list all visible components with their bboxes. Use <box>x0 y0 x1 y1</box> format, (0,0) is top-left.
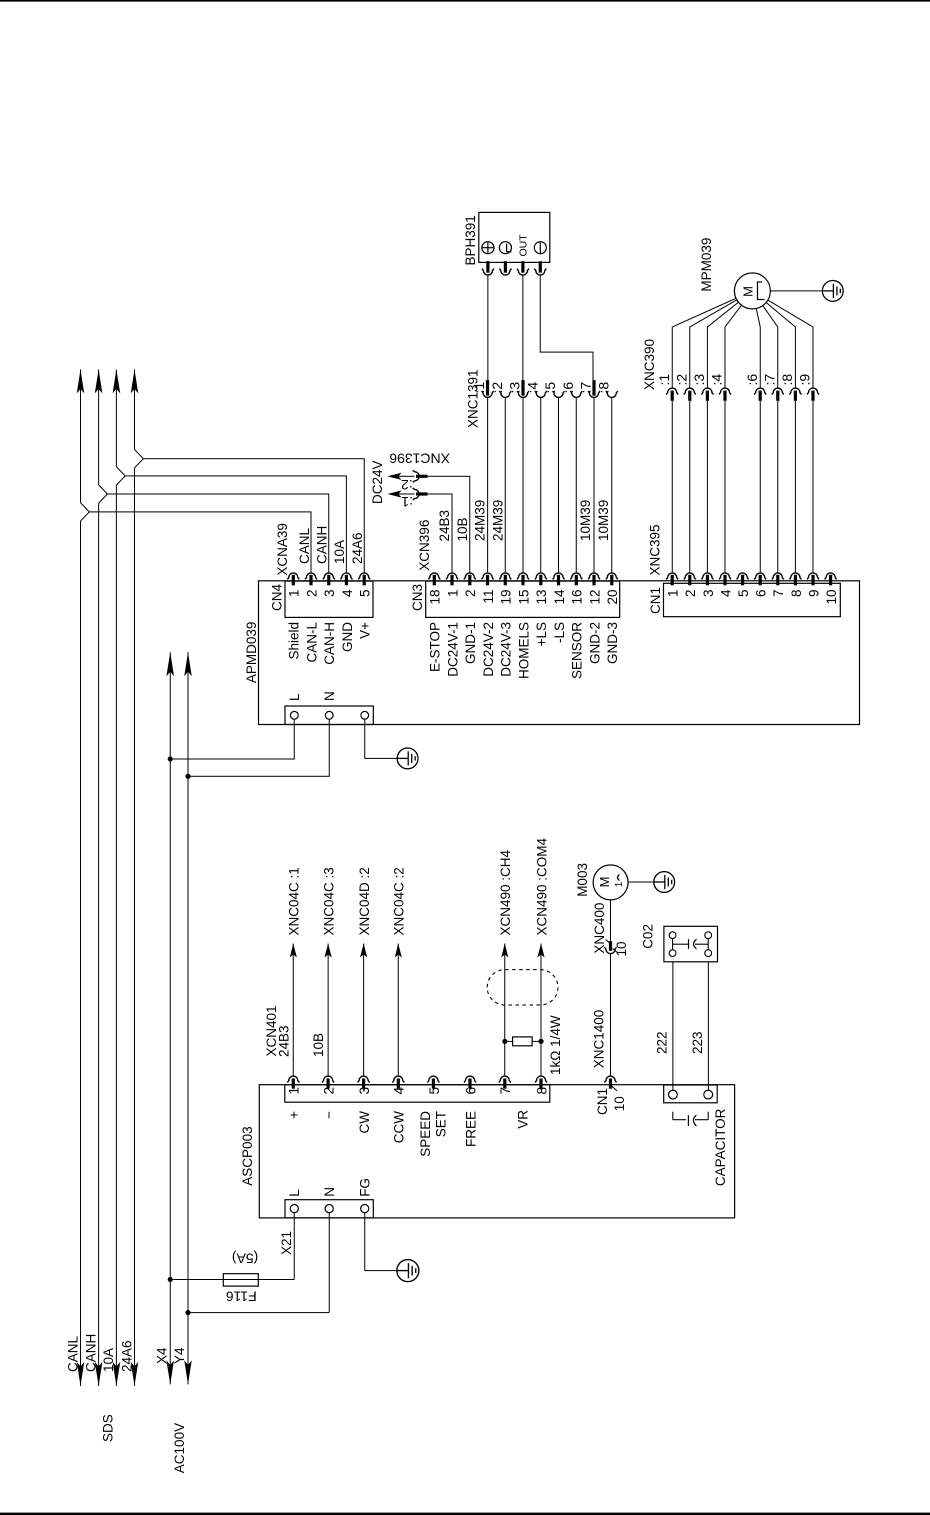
wire XNC390 :3 to CN1 <box>706 401 708 573</box>
svg-text:XNC1396: XNC1396 <box>389 451 450 467</box>
svg-text:24A6: 24A6 <box>119 1340 134 1372</box>
XNC1391 socket :6 <box>560 382 583 573</box>
svg-text:16: 16 <box>570 590 585 605</box>
wire BPH391 minus to XNC1391 :7 <box>540 275 593 380</box>
connector XNC1391 <box>466 369 481 428</box>
wire APMD N to Y4 <box>185 719 329 779</box>
svg-text:XNC04D :2: XNC04D :2 <box>357 867 372 935</box>
svg-text:M: M <box>740 286 755 297</box>
svg-text::9: :9 <box>797 374 813 386</box>
svg-text:24M39: 24M39 <box>473 500 488 541</box>
svg-text:24B3: 24B3 <box>437 510 452 542</box>
svg-text:CAPACITOR: CAPACITOR <box>713 1108 728 1186</box>
bus net 24A6 <box>119 369 143 1386</box>
svg-text:CAN-L: CAN-L <box>304 622 319 663</box>
svg-text:X21: X21 <box>279 1231 294 1255</box>
svg-text:XNC1391: XNC1391 <box>466 369 481 428</box>
svg-text:(5A): (5A) <box>232 1250 258 1266</box>
svg-text:2: 2 <box>322 1087 337 1095</box>
svg-text:GND-2: GND-2 <box>587 622 602 664</box>
svg-text:6: 6 <box>754 590 769 598</box>
connector CN3 (XCN396) on APMD039 <box>410 520 620 679</box>
svg-text:XNC04C :2: XNC04C :2 <box>392 867 407 935</box>
svg-text::8: :8 <box>779 374 795 386</box>
svg-text::1: :1 <box>401 494 413 510</box>
XNC390 socket :6 <box>744 374 766 401</box>
svg-text:1: 1 <box>287 1087 302 1095</box>
wire XCN401 to XNC04D :2 <box>357 867 372 1075</box>
wire XNC390 :7 to CN1 <box>777 401 779 573</box>
svg-text:N: N <box>322 1187 337 1197</box>
svg-text:12: 12 <box>587 590 602 605</box>
border line bottom <box>0 1513 930 1515</box>
internal capacitor symbol <box>673 1112 708 1126</box>
svg-text:8: 8 <box>789 590 804 598</box>
wire label 10B <box>455 517 470 541</box>
svg-text:GND-1: GND-1 <box>463 622 478 664</box>
wire 10A to CN4 <box>125 476 346 573</box>
svg-text:C02: C02 <box>641 924 656 949</box>
svg-text:8: 8 <box>534 1087 549 1095</box>
svg-text:Shield: Shield <box>287 622 302 660</box>
svg-text:222: 222 <box>655 1031 670 1054</box>
wire XCN401 to XNC04C :2 <box>392 867 407 1075</box>
wire XCN401 pin8 to XCN490 :COM4 <box>534 837 549 1075</box>
svg-text:+: + <box>287 1111 302 1119</box>
XNC1391 socket :4 <box>524 382 547 573</box>
svg-text:F116: F116 <box>226 1289 257 1305</box>
net Y4 <box>172 652 192 1384</box>
svg-text:AC100V: AC100V <box>172 1423 187 1473</box>
BPH391 terminal symbol plus <box>482 242 494 254</box>
wire labels CANL CANH 10A 24A6 at CN4 <box>297 526 365 564</box>
svg-text:2: 2 <box>683 590 698 598</box>
wire ASCP N to Y4 <box>185 1213 329 1316</box>
wire XNC390 :6 to CN1 <box>759 401 761 573</box>
svg-text::4: :4 <box>524 382 540 394</box>
net X4 <box>154 652 174 1384</box>
XNC390 socket :7 <box>762 374 784 401</box>
svg-text:E-STOP: E-STOP <box>428 622 443 672</box>
wire APMD L to X4 <box>168 719 295 761</box>
svg-text:APMD039: APMD039 <box>244 622 259 684</box>
svg-text:GND: GND <box>340 622 355 652</box>
XNC390 socket :4 <box>709 374 731 401</box>
svg-text:10: 10 <box>614 941 629 956</box>
svg-text:SET: SET <box>433 1111 448 1137</box>
XNC1391 socket :8 <box>595 382 618 573</box>
wire BPH391 plus to XNC1391 :1 <box>487 275 489 380</box>
svg-text::4: :4 <box>709 374 725 386</box>
svg-text::6: :6 <box>560 382 576 394</box>
svg-text:223: 223 <box>690 1031 705 1054</box>
svg-text:CANH: CANH <box>83 1334 98 1372</box>
svg-text:V+: V+ <box>358 622 373 639</box>
label CAPACITOR <box>713 1108 728 1186</box>
BPH391 terminal symbol minus <box>534 242 546 254</box>
wire ASCP L via fuse F116 to X4 <box>168 1213 295 1282</box>
wire XNC390 :8 to CN1 <box>794 401 796 573</box>
svg-text:HOMELS: HOMELS <box>516 622 531 679</box>
svg-text:DC24V-1: DC24V-1 <box>445 622 460 677</box>
svg-text::3: :3 <box>691 374 707 386</box>
svg-text:XNC04C :1: XNC04C :1 <box>287 867 302 935</box>
svg-text:CCW: CCW <box>392 1111 407 1143</box>
XNC390 socket :1 <box>656 374 678 401</box>
svg-text:2: 2 <box>304 590 319 598</box>
svg-text:10M39: 10M39 <box>578 500 593 541</box>
svg-text:XNC395: XNC395 <box>648 524 663 575</box>
svg-text:2: 2 <box>463 590 478 598</box>
svg-text:+LS: +LS <box>534 622 549 646</box>
connector XCN401 on ASCP003 <box>264 1005 550 1156</box>
svg-text:1: 1 <box>666 590 681 598</box>
wire label 24M39 (pin 11) <box>473 500 488 541</box>
svg-text:DC24V-2: DC24V-2 <box>481 622 496 677</box>
block APMD039 <box>244 581 860 725</box>
svg-text:11: 11 <box>481 590 496 604</box>
svg-text:1kΩ 1/4W: 1kΩ 1/4W <box>548 1015 563 1075</box>
connector CN4 (XCNA39) on APMD039 <box>270 523 374 665</box>
ground at M003 <box>628 872 675 893</box>
svg-text:7: 7 <box>498 1087 513 1095</box>
wires MPM039 fan to XNC390 <box>672 298 813 388</box>
wire XNC390 :2 to CN1 <box>689 401 691 573</box>
svg-text:CANH: CANH <box>315 526 330 564</box>
svg-text:ASCP003: ASCP003 <box>240 1126 255 1185</box>
svg-text:XCN396: XCN396 <box>417 520 432 571</box>
svg-text:CW: CW <box>357 1111 372 1134</box>
svg-text:XCN490 :CH4: XCN490 :CH4 <box>498 849 513 935</box>
connector XNC400 pin 10 <box>592 900 629 957</box>
XNC390 socket :8 <box>779 374 801 401</box>
BPH391 pin 2 <box>499 261 511 275</box>
svg-text:M003: M003 <box>575 863 590 897</box>
svg-text:L: L <box>287 693 302 701</box>
XNC1391 socket :1 <box>471 380 494 573</box>
net label AC100V <box>172 1423 187 1473</box>
wire XNC390 :4 to CN1 <box>724 401 726 573</box>
wire label 24M39 (pin 19) <box>490 500 505 541</box>
dashed cable marker around XCN490 wires <box>487 970 558 1005</box>
svg-text::2: :2 <box>674 374 690 386</box>
wire label 10M39 (pin 12) <box>578 500 593 541</box>
capacitor terminals on ASCP003 <box>664 1085 718 1103</box>
svg-text:7: 7 <box>771 590 786 598</box>
svg-text:18: 18 <box>428 590 443 605</box>
wire XCN401 pin7 to XCN490 :CH4 <box>498 849 513 1075</box>
svg-text:DC24V: DC24V <box>370 460 385 504</box>
wire XNC390 :1 to CN1 <box>671 401 673 573</box>
svg-text::8: :8 <box>595 382 611 394</box>
XNC390 socket :3 <box>691 374 713 401</box>
wire XCN401 to XNC04C :1 <box>276 867 301 1075</box>
svg-text::7: :7 <box>578 382 594 394</box>
svg-text::6: :6 <box>744 374 760 386</box>
net label DC24V <box>370 460 385 504</box>
svg-text:XNC1400: XNC1400 <box>592 1010 607 1069</box>
svg-text:10: 10 <box>824 590 839 605</box>
svg-text:4: 4 <box>392 1087 407 1095</box>
block ASCP003 <box>240 1085 735 1218</box>
wire BPH391 OUT to XNC1391 :3 <box>522 275 524 380</box>
svg-text:19: 19 <box>499 590 514 605</box>
wire 24A6 to CN4 <box>143 459 364 573</box>
wire label 10M39 (pin 20) <box>596 500 611 541</box>
svg-text:M: M <box>597 877 612 888</box>
svg-text:3: 3 <box>357 1087 372 1095</box>
wire APMD FG to ground <box>365 719 418 769</box>
bus net 10A <box>101 369 125 1386</box>
connector CN1 pin 10 on ASCP003 <box>595 1076 627 1115</box>
svg-text:1: 1 <box>287 590 302 598</box>
svg-text:15: 15 <box>516 590 531 605</box>
svg-text:CANL: CANL <box>297 527 312 564</box>
svg-text:XNC04C :3: XNC04C :3 <box>322 867 337 935</box>
XNC1391 socket :5 <box>542 382 565 573</box>
wire CANH to CN4 <box>107 494 328 573</box>
connector XNC390 <box>642 339 657 390</box>
svg-text:24M39: 24M39 <box>490 500 505 541</box>
svg-text:3: 3 <box>701 590 716 598</box>
svg-text:L: L <box>287 1189 302 1197</box>
XNC390 socket :2 <box>674 374 696 401</box>
svg-text:3: 3 <box>322 590 337 598</box>
connector XNC1396 pin :2 <box>388 470 470 572</box>
svg-text::1: :1 <box>656 374 672 386</box>
ground at MPM039 <box>770 281 843 302</box>
connector CN1 (XNC395) on APMD039 <box>648 524 841 616</box>
BPH391 terminal OUT <box>517 234 529 257</box>
svg-text:VR: VR <box>516 1110 531 1129</box>
wire XNC1400 <box>592 954 611 1076</box>
svg-text:SPEED: SPEED <box>418 1111 433 1157</box>
svg-text:GND-3: GND-3 <box>605 622 620 664</box>
svg-text:FG: FG <box>358 1178 373 1197</box>
svg-text::1: :1 <box>471 382 487 394</box>
svg-text:13: 13 <box>534 590 549 605</box>
border line top <box>0 0 930 2</box>
svg-text:CANL: CANL <box>65 1335 80 1372</box>
wire ASCP FG to ground <box>365 1213 419 1282</box>
svg-text:5: 5 <box>736 590 751 598</box>
wire XCN401 to XNC04C :3 <box>311 867 336 1075</box>
svg-text:4: 4 <box>340 589 355 597</box>
svg-text:10B: 10B <box>311 1033 326 1057</box>
connector label XNC1396 (rotated) <box>389 451 450 467</box>
svg-text:CN1: CN1 <box>595 1088 610 1115</box>
svg-text::2: :2 <box>401 477 413 493</box>
wire C02 222 <box>655 962 673 1090</box>
svg-text:6: 6 <box>463 1087 478 1095</box>
BPH391 pin 3 <box>517 261 529 275</box>
device BPH391 <box>463 212 550 265</box>
bus net CANH <box>83 369 107 1386</box>
svg-text:CN1: CN1 <box>648 587 663 614</box>
svg-text:SDS: SDS <box>100 1414 115 1442</box>
svg-text:10: 10 <box>612 1096 627 1111</box>
bus net CANL <box>65 369 89 1386</box>
BPH391 pin 4 <box>534 261 546 275</box>
svg-text:N: N <box>322 691 337 701</box>
svg-text::2: :2 <box>489 382 505 394</box>
svg-text:XCN490 :COM4: XCN490 :COM4 <box>534 837 549 935</box>
svg-text:10B: 10B <box>455 517 470 541</box>
svg-text:CAN-H: CAN-H <box>322 622 337 665</box>
terminal block L/N/FG on ASCP003 <box>285 1178 373 1218</box>
svg-text:5: 5 <box>358 590 373 598</box>
svg-text:5: 5 <box>427 1087 442 1095</box>
wire C02 223 <box>690 962 708 1090</box>
svg-text::5: :5 <box>542 382 558 394</box>
svg-text:1: 1 <box>445 590 460 598</box>
wire XNC390 :9 to CN1 <box>812 401 814 573</box>
svg-text:CN3: CN3 <box>410 584 425 611</box>
motor M003 <box>575 863 628 900</box>
svg-text:XNC390: XNC390 <box>642 339 657 390</box>
svg-text:OUT: OUT <box>517 234 529 257</box>
connector XNC1396 pin :1 <box>388 488 453 573</box>
svg-text:Y4: Y4 <box>172 1347 187 1364</box>
svg-text:1: 1 <box>614 881 625 887</box>
svg-text:10A: 10A <box>332 540 347 564</box>
svg-text:9: 9 <box>806 590 821 598</box>
svg-text:BPH391: BPH391 <box>463 215 478 265</box>
svg-text:MPM039: MPM039 <box>699 238 714 292</box>
svg-text:20: 20 <box>605 590 620 605</box>
svg-text:XNC400: XNC400 <box>592 903 607 954</box>
svg-text:24B3: 24B3 <box>276 1025 291 1057</box>
BPH391 pin 1 <box>482 261 494 275</box>
svg-text:X4: X4 <box>154 1347 169 1364</box>
svg-text:-LS: -LS <box>552 622 567 643</box>
wire CANL to CN4 <box>89 512 311 573</box>
capacitor unit C02 <box>641 924 718 962</box>
svg-text:4: 4 <box>718 589 733 597</box>
svg-text:10M39: 10M39 <box>596 500 611 541</box>
svg-text:DC24V-3: DC24V-3 <box>499 622 514 677</box>
terminal block L/N/FG on APMD039 <box>285 691 373 724</box>
svg-text:10A: 10A <box>101 1348 116 1372</box>
net label SDS <box>100 1414 115 1442</box>
XNC390 socket :9 <box>797 374 819 401</box>
XNC1391 socket :7 <box>578 380 601 573</box>
svg-text::7: :7 <box>762 374 778 386</box>
resistor 1kohm 1/4W <box>502 1015 563 1075</box>
motor MPM039 <box>699 238 770 309</box>
fuse F116 (5A) <box>223 1250 258 1304</box>
svg-text:24A6: 24A6 <box>350 532 365 564</box>
svg-text:SENSOR: SENSOR <box>570 622 585 679</box>
XNC1391 socket :2 <box>489 382 512 573</box>
svg-text:CN4: CN4 <box>270 584 285 611</box>
BPH391 terminal symbol case <box>499 242 511 254</box>
XNC1391 socket :3 <box>507 380 530 573</box>
svg-text:XCNA39: XCNA39 <box>275 523 290 576</box>
svg-text:−: − <box>322 1111 337 1119</box>
svg-text:FREE: FREE <box>463 1111 478 1147</box>
wire label 24B3 <box>437 510 452 542</box>
svg-text:14: 14 <box>552 589 567 605</box>
svg-text::3: :3 <box>507 382 523 394</box>
